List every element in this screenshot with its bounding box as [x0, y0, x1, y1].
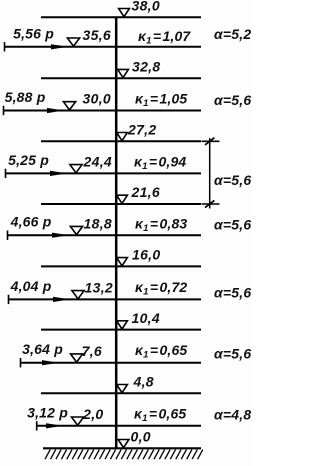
- level line 7,6: [21, 362, 202, 364]
- svg-text:5,56 p: 5,56 p: [13, 25, 54, 41]
- level line 2,0: [37, 425, 201, 427]
- ground hatching: [45, 450, 203, 460]
- svg-text:α=5,6: α=5,6: [214, 92, 251, 108]
- svg-text:5,25 p: 5,25 p: [8, 152, 49, 168]
- svg-text:α=5,6: α=5,6: [214, 285, 251, 301]
- dimension oblique tick bottom: [205, 200, 214, 207]
- load line end tick 4,04: [8, 295, 10, 304]
- level line 35,6: [5, 46, 202, 48]
- elevation mark (triangle) 32,8: [118, 69, 129, 77]
- level line 13,2: [9, 298, 202, 300]
- dimension extension tick top (27,2 level): [202, 140, 220, 142]
- load line end tick 3,12: [36, 421, 38, 430]
- svg-text:13,2: 13,2: [85, 280, 113, 296]
- level line 38,0: [41, 16, 201, 18]
- svg-text:24,4: 24,4: [83, 154, 112, 170]
- svg-text:κ1 = 1,07: κ1 = 1,07: [138, 28, 191, 47]
- svg-text:κ1 = 0,72: κ1 = 0,72: [135, 279, 187, 298]
- svg-text:κ1 = 0,65: κ1 = 0,65: [135, 342, 187, 361]
- svg-text:α=5,2: α=5,2: [214, 26, 251, 42]
- level line 4,8: [41, 392, 201, 394]
- svg-text:0,0: 0,0: [131, 429, 151, 445]
- svg-text:α=5,6: α=5,6: [214, 217, 251, 233]
- load line end tick 5,25: [5, 169, 7, 178]
- svg-text:35,6: 35,6: [83, 27, 111, 43]
- elevation mark (triangle) 30,0: [63, 102, 75, 110]
- elevation mark (triangle) 18,8: [70, 226, 82, 234]
- svg-text:2,0: 2,0: [82, 406, 103, 422]
- svg-text:4,8: 4,8: [133, 374, 154, 390]
- load line end tick 5,88: [3, 106, 5, 115]
- dimension line a=5,6 (2x2.8m segment): [209, 138, 211, 208]
- elevation mark (triangle) 13,2: [72, 291, 84, 299]
- svg-text:16,0: 16,0: [132, 247, 160, 263]
- load line end tick 3,64: [20, 358, 22, 367]
- svg-text:21,6: 21,6: [131, 184, 160, 200]
- svg-text:κ1 = 1,05: κ1 = 1,05: [135, 90, 187, 109]
- elevation mark (triangle) 0,0: [118, 440, 129, 448]
- load arrowhead 5,56 p: [51, 44, 68, 49]
- load arrowhead 3,12 p: [46, 423, 63, 428]
- elevation mark (triangle) 7,6: [71, 354, 83, 362]
- svg-text:5,88 p: 5,88 p: [5, 89, 46, 105]
- level line 24,4: [6, 172, 202, 174]
- level line 32,8: [41, 77, 201, 79]
- elevation mark (triangle) 21,6: [117, 195, 128, 203]
- svg-text:38,0: 38,0: [132, 0, 160, 14]
- svg-text:27,2: 27,2: [127, 122, 156, 138]
- level line 27,2: [41, 140, 201, 142]
- svg-text:30,0: 30,0: [83, 91, 111, 107]
- svg-text:α=5,6: α=5,6: [214, 172, 251, 188]
- svg-text:32,8: 32,8: [132, 58, 160, 74]
- level line 16,0: [41, 265, 201, 267]
- svg-text:α=5,6: α=5,6: [214, 346, 251, 362]
- elevation mark (triangle) 4,8: [117, 385, 128, 393]
- load arrowhead 5,25 p: [50, 171, 67, 176]
- elevation mark (triangle) 2,0: [72, 417, 84, 425]
- elevation mark (triangle) 38,0: [119, 9, 130, 17]
- level line 30,0: [4, 110, 202, 112]
- svg-text:3,12 p: 3,12 p: [27, 404, 68, 420]
- svg-text:κ1 = 0,65: κ1 = 0,65: [134, 406, 186, 425]
- elevation mark (triangle) 16,0: [117, 258, 128, 266]
- elevation mark (triangle) 10,4: [117, 321, 128, 329]
- column (central vertical member): [115, 17, 118, 450]
- svg-text:4,66 p: 4,66 p: [10, 214, 52, 230]
- elevation mark (triangle) 24,4: [70, 165, 82, 173]
- dimension oblique tick top: [205, 138, 214, 145]
- svg-text:α=4,8: α=4,8: [214, 407, 251, 423]
- svg-text:18,8: 18,8: [84, 215, 112, 231]
- svg-text:κ1 = 0,83: κ1 = 0,83: [135, 216, 187, 235]
- svg-text:7,6: 7,6: [82, 343, 102, 359]
- elevation mark (triangle) 27,2: [117, 133, 128, 141]
- svg-text:3,64 p: 3,64 p: [22, 341, 63, 357]
- svg-text:κ1 = 0,94: κ1 = 0,94: [134, 153, 186, 172]
- level line 21,6: [41, 203, 201, 205]
- ground line: [43, 447, 201, 449]
- load arrowhead 5,88 p: [47, 108, 64, 113]
- load arrowhead 3,64 p: [42, 360, 59, 365]
- level line 10,4: [41, 329, 201, 331]
- level line 18,8: [8, 234, 202, 236]
- svg-text:10,4: 10,4: [132, 310, 160, 326]
- load arrowhead 4,66 p: [52, 233, 69, 238]
- svg-text:4,04 p: 4,04 p: [10, 278, 52, 294]
- elevation mark (triangle) 35,6: [67, 38, 79, 46]
- dimension extension tick bottom (21,6 level): [202, 203, 220, 205]
- load line end tick 5,56: [4, 42, 6, 51]
- load arrowhead 4,04 p: [53, 297, 70, 302]
- load line end tick 4,66: [7, 231, 9, 240]
